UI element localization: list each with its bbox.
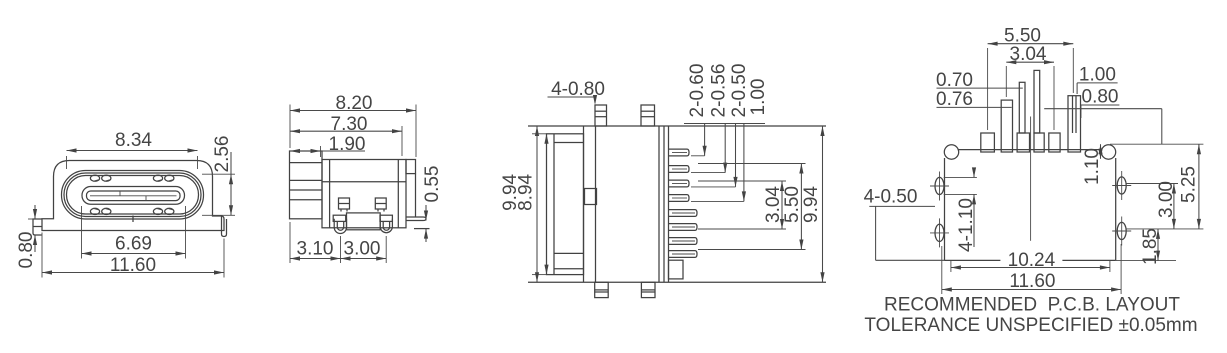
ext line 6.69 left: [81, 206, 83, 259]
dim line 11.60 v4: [942, 289, 1121, 291]
housing inner wall: [595, 126, 597, 282]
leader 2-0.56: [724, 124, 726, 173]
1.00 underline: [1077, 82, 1118, 84]
dim line 2.56: [230, 174, 232, 215]
terminal lead right: [406, 217, 426, 221]
spring contacts bottom-left: [90, 208, 99, 214]
right foot tab: [222, 217, 227, 237]
right post: [380, 219, 392, 233]
spring contacts top-right: [153, 175, 162, 181]
pin 7: [669, 238, 698, 245]
nose inner top line: [554, 142, 584, 144]
svg-text:TOLERANCE UNSPECIFIED ±0.05mm: TOLERANCE UNSPECIFIED ±0.05mm: [864, 315, 1197, 336]
ext line 2.56 bottom: [202, 214, 235, 216]
top post right: [641, 105, 655, 126]
svg-text:9.94: 9.94: [801, 186, 822, 223]
dim line 10.24: [951, 267, 1110, 269]
svg-text:1.85: 1.85: [1140, 228, 1161, 265]
seating plane tick: [414, 228, 430, 230]
bottom right foot: [669, 260, 684, 279]
ext line 2.56 top: [202, 173, 235, 175]
spring contacts top-left: [90, 175, 99, 181]
housing rear wall: [658, 126, 660, 282]
svg-text:2-0.56: 2-0.56: [709, 64, 730, 118]
pad 1: [981, 133, 995, 152]
1.00 leader drop: [1076, 83, 1078, 94]
ext 3.00 right: [385, 236, 387, 263]
svg-text:8.20: 8.20: [336, 93, 373, 114]
pad 4: [1034, 133, 1044, 152]
ext 4-1.10 top: [944, 176, 977, 178]
4-0.80 leader drop: [594, 97, 596, 103]
tongue mid line: [90, 195, 177, 197]
svg-text:RECOMMENDED P.C.B. LAYOUT: RECOMMENDED P.C.B. LAYOUT: [884, 295, 1180, 316]
shield nose: [547, 134, 584, 275]
dim 0.55 upper line: [425, 205, 427, 221]
tongue tick 1: [119, 191, 121, 196]
svg-text:3.04: 3.04: [763, 186, 784, 223]
nose inner vertical: [553, 134, 555, 275]
svg-text:4-1.10: 4-1.10: [956, 198, 977, 252]
tongue inner bar: [87, 191, 181, 201]
ext 1.90 right: [320, 146, 322, 157]
nose inner bottom line 2: [554, 268, 584, 270]
svg-text:2-0.50: 2-0.50: [729, 64, 750, 118]
bottom post left: [595, 282, 609, 297]
0.80 underline: [1081, 104, 1120, 106]
svg-text:1.90: 1.90: [329, 134, 366, 155]
4-1.10 arrow line top: [973, 168, 975, 177]
right post shoulder: [380, 215, 392, 221]
dim line 2.56 upper extension: [230, 152, 232, 174]
ext line 8.34 right: [197, 156, 199, 169]
leader 2-0.50: [735, 124, 737, 187]
dim line 1.10 notch: [1100, 144, 1102, 159]
ext 5.50 top: [698, 163, 806, 165]
oval hole lower-right: [1117, 222, 1126, 239]
svg-text:1.10: 1.10: [1082, 148, 1103, 185]
4-1.10 arrow line bottom: [973, 194, 975, 247]
back plate line 2: [668, 126, 670, 282]
back plate line 1: [663, 126, 665, 282]
pad 6 inner line 1: [1072, 96, 1074, 133]
ext 5.50 right v4: [1072, 48, 1074, 93]
shield inner stadium: [67, 176, 199, 215]
label 10.24: [1000, 252, 1062, 269]
right edge below tab: [415, 174, 417, 217]
pad 6: [1068, 96, 1081, 152]
ext 3.10 left: [289, 222, 291, 263]
top post left: [595, 105, 607, 126]
pad 5: [1049, 133, 1060, 152]
0.70 leader: [937, 87, 1023, 89]
housing block: [322, 160, 406, 228]
ext 10.24 right: [1109, 260, 1111, 272]
dim line 3.10: [290, 258, 341, 260]
leader horizontal to right: [1044, 108, 1162, 110]
ext line 11.60 left: [41, 233, 43, 278]
svg-text:11.60: 11.60: [110, 255, 156, 276]
0.76 leader: [937, 106, 1012, 108]
ext line 6.69 right: [185, 206, 187, 259]
4-0.80 underline: [548, 96, 596, 98]
tongue outline: [82, 187, 185, 205]
pin 6: [669, 224, 698, 231]
svg-text:6.69: 6.69: [115, 234, 152, 255]
svg-text:3.04: 3.04: [1010, 44, 1047, 65]
left post shoulder: [333, 215, 346, 221]
bottom post right: [641, 282, 655, 297]
svg-text:3.00: 3.00: [344, 239, 381, 260]
ext 5.50 left v4: [987, 48, 989, 130]
ext 1.85 bottom: [1116, 260, 1176, 262]
svg-text:3.00: 3.00: [1156, 181, 1177, 218]
housing inner horizontal: [322, 181, 406, 183]
pin 8: [669, 251, 698, 258]
svg-text:0.55: 0.55: [422, 166, 443, 203]
oval hole lower-left: [935, 224, 944, 241]
top right tab: [406, 160, 416, 174]
face line 2: [290, 179, 323, 181]
PCB outline: [958, 149, 1102, 151]
svg-text:1.00: 1.00: [748, 79, 769, 116]
label 11.60 v4: [1001, 274, 1063, 290]
dim line 3.00: [1173, 184, 1175, 229]
dim line 1.90: [290, 150, 365, 152]
svg-text:11.60: 11.60: [1009, 271, 1055, 292]
dim line 9.94 left: [536, 126, 538, 282]
pad 3 narrow extension: [1019, 82, 1025, 133]
pad 6 inner line 2: [1075, 96, 1077, 133]
ext 5.25 top: [1110, 143, 1203, 145]
svg-text:5.25: 5.25: [1179, 166, 1200, 203]
housing inner right wall: [397, 160, 399, 228]
svg-text:2.56: 2.56: [212, 136, 233, 173]
ext 3.00/5.25 bottom: [1126, 228, 1203, 230]
corner relief circle right: [1101, 145, 1115, 159]
dim line 3.00: [341, 258, 387, 260]
centerline: [1030, 117, 1032, 241]
4-0.50 underline: [869, 205, 935, 207]
svg-text:1.00: 1.00: [1079, 65, 1116, 86]
dim line 1.85: [1157, 229, 1159, 261]
ext 3.04 left v4: [1005, 66, 1007, 97]
bottom outline/extension line: [528, 281, 826, 283]
ext 3.04 top: [698, 180, 786, 182]
face line 3: [290, 189, 323, 191]
dim line 7.30: [290, 130, 402, 132]
dim line 5.50 v4: [988, 43, 1074, 45]
ext 7.30 right: [401, 126, 403, 156]
ext 10.24 left: [950, 260, 952, 272]
center pedestal: [347, 213, 381, 230]
top outline/extension line: [528, 125, 826, 127]
nose inner bottom line 1: [554, 252, 584, 254]
svg-text:2-0.60: 2-0.60: [687, 64, 708, 118]
pin 1: [669, 149, 690, 156]
labels base line: [684, 123, 765, 125]
mating face block: [290, 151, 323, 219]
leader 2-0.60: [704, 124, 706, 156]
pin 2: [669, 166, 690, 173]
leader vertical to pcb top: [1161, 109, 1163, 145]
dim 0.55 lower line: [425, 229, 427, 242]
ext 8.94 top: [532, 133, 547, 135]
pad 3: [1017, 133, 1029, 152]
dim line 0.80 lower: [34, 235, 36, 252]
pad 4 narrow extension: [1034, 70, 1040, 133]
dim line 0.80 upper: [34, 205, 36, 219]
svg-text:8.34: 8.34: [115, 130, 152, 151]
ext 3.00 top: [1126, 183, 1178, 185]
leader 1.00: [743, 124, 745, 202]
face line 1: [290, 162, 323, 164]
left foot tab: [33, 219, 42, 235]
corner relief circle left: [944, 145, 958, 159]
ext line 11.60 right: [223, 239, 225, 278]
left post: [334, 219, 346, 234]
pad 2: [1001, 100, 1012, 152]
svg-text:0.80: 0.80: [16, 232, 37, 269]
dim line 3.04: [781, 181, 783, 229]
dim line 3.04 v4: [1006, 61, 1054, 63]
svg-text:4-0.50: 4-0.50: [864, 187, 918, 208]
ext line 8.34 left: [66, 156, 68, 169]
0.80 leader drop: [1080, 105, 1082, 118]
ext 11.60 right v4: [1120, 244, 1122, 294]
svg-text:5.50: 5.50: [782, 186, 803, 223]
shield mid stadium: [64, 173, 201, 217]
oval hole upper-left: [935, 177, 944, 194]
ext 4-1.10 bottom: [944, 193, 977, 195]
pin 5: [669, 210, 698, 217]
spring contacts bottom-right: [153, 208, 162, 214]
ext 3.04 right v4: [1053, 66, 1055, 130]
ext 11.60 left v4: [941, 246, 943, 294]
face line 4: [290, 199, 323, 201]
pin 3: [669, 180, 690, 187]
svg-text:3.10: 3.10: [297, 239, 334, 260]
bottom center tick: [132, 216, 134, 223]
tongue tick 2: [145, 196, 147, 201]
ext 3.10/3.00 mid: [340, 236, 342, 263]
dim line 11.60: [42, 272, 224, 274]
dim line 6.69: [82, 253, 186, 255]
housing inner left wall: [329, 160, 331, 228]
housing front wall: [583, 126, 585, 282]
dim line 5.50 v3: [800, 164, 802, 250]
connector body front outline: [42, 161, 224, 231]
oval hole upper-right: [1117, 177, 1126, 194]
ext 3.04 bottom: [698, 228, 786, 230]
ext 8.20 left: [289, 105, 291, 149]
svg-text:0.76: 0.76: [936, 89, 973, 110]
right latch detail: [375, 198, 386, 209]
left latch detail: [339, 198, 350, 209]
keying notch: [585, 189, 597, 205]
ext 5.50 bottom: [698, 249, 806, 251]
svg-text:7.30: 7.30: [331, 114, 368, 135]
shield outer stadium: [62, 171, 204, 220]
ext 8.20 right: [415, 105, 417, 158]
ext 8.94 bottom: [532, 274, 547, 276]
svg-text:8.94: 8.94: [516, 173, 537, 210]
pin 4: [669, 195, 690, 202]
4-0.50 bracket vertical: [875, 206, 877, 260]
svg-text:0.80: 0.80: [1082, 87, 1119, 108]
dim line 9.94 right: [822, 126, 824, 282]
4-0.50 bracket horizontal: [876, 259, 945, 261]
dim line 8.20: [290, 110, 416, 112]
dim line 8.34: [67, 150, 198, 152]
dim arrows 8.94 on nose edge: [544, 134, 548, 144]
dim line 5.25: [1198, 144, 1200, 229]
